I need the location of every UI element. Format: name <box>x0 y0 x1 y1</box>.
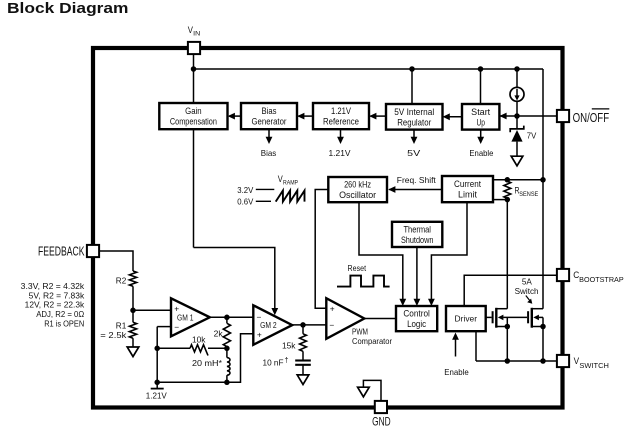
svg-text:10 nF: 10 nF <box>263 357 284 367</box>
svg-text:2k: 2k <box>214 328 224 338</box>
wire node to zener <box>516 116 518 129</box>
svg-text:= 2.5k: = 2.5k <box>100 330 127 340</box>
svg-text:Reset: Reset <box>348 263 367 273</box>
wire 10k left segment <box>157 347 190 349</box>
svg-text:GND: GND <box>372 414 391 428</box>
node bottom rail left <box>154 380 160 386</box>
tick 3.2V <box>256 188 274 190</box>
wire 1.21V node vertical <box>156 327 158 389</box>
svg-text:Regulator: Regulator <box>397 117 431 127</box>
block 260kHz Oscillator <box>328 177 387 202</box>
svg-text:†: † <box>285 355 289 364</box>
resistor RSENSE <box>504 181 511 198</box>
block Gain Compensation <box>159 103 227 129</box>
block Control Logic <box>396 306 437 331</box>
current source I1 <box>510 87 524 101</box>
wire PWM output to Control Logic <box>364 318 396 320</box>
wire junction to R1 <box>132 310 134 322</box>
svg-text:1.21V: 1.21V <box>329 148 351 158</box>
wire current limit to control logic <box>431 202 467 300</box>
terminal FEEDBACK <box>87 245 99 257</box>
wire Rsense to MOSFET drain <box>506 200 508 309</box>
block 1.21V Reference <box>313 103 369 129</box>
arrow 5V output <box>413 130 415 138</box>
node feedback divider <box>130 308 136 314</box>
wire Gain Compensation output down <box>193 129 195 247</box>
svg-text:−: − <box>329 320 334 330</box>
node Vswitch-Q1 <box>505 358 511 364</box>
block Current Limit <box>442 176 493 202</box>
arrow Bias output <box>268 129 270 137</box>
wire inductor bottom segment <box>226 375 228 382</box>
svg-text:20 mH*: 20 mH* <box>192 358 223 368</box>
node Q2 source <box>540 324 546 330</box>
terminal VIN <box>188 42 200 54</box>
ground below zener <box>511 156 523 166</box>
svg-text:R1: R1 <box>116 320 127 330</box>
transistor Q1 gate bar <box>492 311 494 323</box>
wire 2k to 10k junction <box>226 347 228 349</box>
transistor Q2 body arrow <box>533 315 539 321</box>
svg-text:Reference: Reference <box>323 117 359 127</box>
inductor 20mH <box>227 358 230 376</box>
svg-text:Current: Current <box>454 179 482 189</box>
arrow Start Up to Regulator <box>444 116 462 118</box>
arrow Reference to Bias Generator <box>298 115 313 117</box>
wire current source to ON/OFF node <box>516 101 518 116</box>
wire GM2 output to PWM minus <box>292 324 326 326</box>
wire thermal shutdown to control logic <box>416 247 418 300</box>
node rail-5V regulator junction <box>409 66 415 72</box>
wire Driver to gates <box>486 316 492 318</box>
wire bootstrap <box>464 275 557 306</box>
transistor Q1 source stub <box>496 326 507 328</box>
transistor Q2 drain stub <box>532 308 543 310</box>
arrow 5A switch pointer <box>526 296 531 302</box>
resistor R1 <box>129 322 136 338</box>
svg-text:+: + <box>257 330 262 340</box>
wire Q1 source down <box>506 327 508 362</box>
transistor Q1 channel bar <box>495 308 497 328</box>
svg-text:SENSE: SENSE <box>519 191 539 198</box>
wire 15k top segment <box>302 325 304 334</box>
wire divider to GM1 + <box>133 309 171 311</box>
arrow Enable output <box>480 130 482 138</box>
svg-text:10k: 10k <box>192 335 206 345</box>
svg-text:Enable: Enable <box>444 367 469 377</box>
arrow Enable into Driver <box>455 338 457 357</box>
svg-text:+: + <box>330 303 335 313</box>
svg-text:Limit: Limit <box>458 190 478 200</box>
svg-text:5V: 5V <box>407 148 420 158</box>
svg-text:3.2V: 3.2V <box>237 185 253 195</box>
node 10k left <box>154 346 160 352</box>
svg-text:Enable: Enable <box>469 148 493 158</box>
terminal VSWITCH <box>557 355 569 367</box>
svg-text:Switch: Switch <box>515 286 539 296</box>
svg-text:ON/OFF: ON/OFF <box>573 111 610 125</box>
capacitor 10nF <box>295 359 311 361</box>
svg-text:0.6V: 0.6V <box>237 197 253 207</box>
wire rail to current source <box>516 69 518 87</box>
op-amp PWM comparator <box>326 298 364 339</box>
svg-text:5V Internal: 5V Internal <box>394 107 434 117</box>
terminal ON/OFF <box>557 110 569 122</box>
wire Driver to Vswitch rail <box>475 331 477 361</box>
wire rail corner down to MOSFET drain <box>542 69 544 309</box>
arrow Bias Generator to Gain Compensation <box>229 115 241 117</box>
resistor R2 <box>129 271 136 286</box>
svg-text:Gain: Gain <box>185 106 202 116</box>
wire capacitor to ground <box>302 365 304 375</box>
transistor Q1 body arrow <box>498 315 504 321</box>
node VIN rail junction <box>191 66 197 72</box>
op-amp GM1 <box>171 298 210 336</box>
terminal GND <box>375 401 387 413</box>
svg-text:1.21V: 1.21V <box>331 106 351 116</box>
wire Rsense bottom <box>493 199 507 201</box>
arrow Regulator to Reference <box>370 115 386 117</box>
node GM2 output <box>300 322 306 328</box>
svg-text:Block Diagram: Block Diagram <box>7 1 129 17</box>
block Thermal Shutdown <box>392 222 442 247</box>
wire 10k right segment <box>208 347 227 349</box>
transistor Q1 drain stub <box>496 308 507 310</box>
svg-text:5V, R2 = 7.83k: 5V, R2 = 7.83k <box>29 291 85 300</box>
node Rsense top <box>505 177 511 183</box>
block 5V Internal Regulator <box>386 104 443 130</box>
svg-text:Oscillator: Oscillator <box>339 190 376 200</box>
wire top VIN rail <box>194 68 544 70</box>
wire Rsense top <box>493 179 543 181</box>
svg-text:+: + <box>174 303 179 313</box>
wire oscillator ramp to PWM comparator <box>315 190 328 309</box>
node Rsense bottom <box>505 197 511 203</box>
svg-text:IN: IN <box>193 31 200 38</box>
tick 0.6V <box>256 200 271 202</box>
arrow 1.21V output <box>340 129 342 137</box>
svg-text:Freq. Shift: Freq. Shift <box>397 175 437 185</box>
IC boundary <box>93 48 563 408</box>
wire Vswitch rail <box>476 360 557 362</box>
ground symbol internal <box>358 387 370 397</box>
block Bias Generator <box>241 103 297 129</box>
svg-text:12V, R2 = 22.3k: 12V, R2 = 22.3k <box>25 301 85 310</box>
svg-text:BOOTSTRAP: BOOTSTRAP <box>579 277 624 284</box>
svg-text:3.3V, R2 = 4.32k: 3.3V, R2 = 4.32k <box>21 282 85 291</box>
arrow Freq Shift to Oscillator <box>389 189 442 191</box>
svg-text:Driver: Driver <box>455 314 478 324</box>
ground below R1 <box>127 347 139 357</box>
svg-text:7V: 7V <box>527 130 537 140</box>
svg-text:ADJ, R2 = 0Ω: ADJ, R2 = 0Ω <box>36 310 84 319</box>
node rail-current-source junction <box>514 66 520 72</box>
op-amp GM2 <box>253 305 292 345</box>
wire rail to 5V Internal Regulator <box>411 69 413 104</box>
arrow into Start Up <box>499 113 506 120</box>
wire bottom rail to GM2 plus <box>157 334 253 383</box>
resistor 15k <box>300 334 307 351</box>
resistor 2k <box>223 323 230 346</box>
svg-text:SWITCH: SWITCH <box>579 363 609 370</box>
wire 2k top segment <box>226 317 228 323</box>
waveform reset <box>337 276 390 287</box>
svg-text:Comparator: Comparator <box>352 336 392 346</box>
wire gain compensation to GM2 arrow <box>194 248 275 309</box>
node inductor bottom <box>224 380 230 386</box>
svg-text:Up: Up <box>476 117 485 127</box>
node 10k-2k junction <box>224 346 230 352</box>
block Start Up <box>462 104 499 130</box>
wire R2 to junction <box>132 286 134 310</box>
wire rail to Start Up <box>480 69 482 104</box>
wire 15k to capacitor <box>302 351 304 360</box>
wire GND elbow <box>363 380 381 401</box>
wire GM1 output to GM2 <box>210 316 254 318</box>
node Vswitch-Q2 <box>540 358 546 364</box>
svg-text:Compensation: Compensation <box>170 117 217 127</box>
wire ON/OFF to Start Up <box>501 115 558 117</box>
svg-text:1.21V: 1.21V <box>146 390 167 400</box>
transistor Q2 channel bar <box>531 308 533 328</box>
svg-text:GM 1: GM 1 <box>177 313 194 322</box>
svg-text:R1 is OPEN: R1 is OPEN <box>44 319 84 328</box>
svg-text:GM 2: GM 2 <box>260 321 277 330</box>
svg-text:Thermal: Thermal <box>403 225 431 235</box>
resistor 10k <box>190 345 208 356</box>
svg-text:15k: 15k <box>282 340 296 350</box>
rail 1.21V bar <box>151 388 164 390</box>
node Rsense rail <box>540 177 546 183</box>
svg-text:260 kHz: 260 kHz <box>344 180 371 190</box>
node ON/OFF junction <box>514 113 520 119</box>
svg-text:−: − <box>174 322 179 332</box>
svg-text:PWM: PWM <box>352 327 368 337</box>
zener D1 7V <box>510 126 524 133</box>
svg-text:R2: R2 <box>116 275 127 285</box>
svg-text:Generator: Generator <box>252 117 287 127</box>
ground below 10nF <box>297 375 309 385</box>
svg-text:Shutdown: Shutdown <box>401 235 434 245</box>
block Driver <box>446 306 486 331</box>
node 2k top <box>224 315 230 321</box>
svg-text:RAMP: RAMP <box>283 179 298 186</box>
wire VIN pad to Gain Compensation <box>193 54 195 103</box>
transistor Q2 gate bar <box>527 311 529 323</box>
node rail-startup junction <box>478 66 484 72</box>
svg-text:Bias: Bias <box>262 106 278 116</box>
transistor Q2 source stub <box>532 326 543 328</box>
wire Q2 source down <box>542 327 544 362</box>
wire FEEDBACK to R2 <box>99 251 133 271</box>
terminal CBOOTSTRAP <box>557 269 569 281</box>
svg-text:Control: Control <box>403 309 430 319</box>
svg-text:FEEDBACK: FEEDBACK <box>38 245 85 259</box>
node Q1 source <box>505 324 511 330</box>
wire GM1 minus input <box>157 326 171 328</box>
waveform sawtooth Vramp <box>276 191 305 202</box>
wire R1 to ground <box>132 338 134 347</box>
wire oscillator to control logic <box>359 202 403 300</box>
svg-text:Start: Start <box>471 107 491 117</box>
svg-text:Logic: Logic <box>407 319 427 329</box>
svg-text:Bias: Bias <box>261 148 277 158</box>
wire inductor top segment <box>226 348 228 357</box>
